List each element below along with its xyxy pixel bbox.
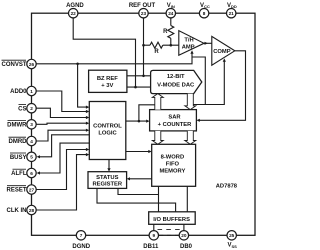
wire T/H bottom tee to DAC output line [192, 57, 205, 105]
wire BZ REF out1 to DAC [127, 75, 151, 77]
chip boundary border [32, 13, 256, 235]
dashed line DB11 to DB0 [159, 234, 179, 236]
wire CLK IN [37, 155, 87, 210]
pin 20 DB0 [179, 231, 188, 240]
svg-text:R: R [154, 49, 159, 55]
block STATUS REGISTER [88, 172, 127, 189]
svg-text:27: 27 [29, 187, 35, 192]
svg-text:24: 24 [168, 11, 174, 16]
wire REF OUT pin23 vertical [143, 18, 145, 76]
wire CS [37, 108, 87, 117]
svg-text:1: 1 [30, 89, 33, 94]
svg-text:R: R [163, 29, 168, 35]
block BZ REF +3V [89, 70, 127, 92]
arrowhead CLK IN into CL [86, 153, 89, 156]
svg-text:12-BIT: 12-BIT [167, 74, 185, 80]
arrowhead BUSY into pin 5 [37, 155, 40, 158]
svg-text:+ COUNTER: + COUNTER [158, 122, 192, 128]
DAC block 12-BIT V-MODE DAC [151, 70, 202, 93]
pin 26 CONVST [27, 59, 36, 68]
svg-text:CLK IN: CLK IN [7, 208, 27, 214]
arrowhead DMWR into CL [86, 122, 89, 125]
svg-text:20: 20 [181, 233, 187, 238]
svg-text:23: 23 [141, 11, 147, 16]
node dot CL/SAR branch [138, 120, 141, 123]
svg-text:DMWR: DMWR [7, 123, 27, 129]
svg-text:SAR: SAR [168, 115, 181, 121]
svg-text:28: 28 [29, 208, 35, 213]
svg-text:LOGIC: LOGIC [98, 130, 117, 136]
bus arrow SAR to FIFO left (down) [152, 131, 163, 144]
wire FIFO to I/O BUFFERS right [186, 186, 188, 212]
svg-text:4: 4 [30, 139, 33, 144]
svg-text:REGISTER: REGISTER [92, 182, 122, 188]
svg-text:STATUS: STATUS [96, 175, 118, 181]
pin 22 AGND [69, 9, 78, 18]
arrowhead into SAR right edge [196, 119, 199, 122]
svg-text:8-WORD: 8-WORD [161, 155, 185, 161]
bus arrow DAC to SAR (down) [185, 94, 196, 110]
arrowhead CONVST into CL [86, 106, 89, 109]
wire VIN pin24 down to resistor [170, 18, 172, 26]
pin 8 VCC [199, 9, 208, 18]
pin 3 DMWR [27, 120, 36, 129]
arrowhead ALFL into pin 6 [37, 171, 40, 174]
svg-text:8: 8 [203, 11, 206, 16]
pin 9 DB11 [149, 231, 158, 240]
node dot AGND joins out2 [134, 86, 137, 89]
pin 2 CS [27, 104, 36, 113]
svg-text:DB11: DB11 [143, 244, 159, 250]
bus arrow SAR to DAC (up) [152, 94, 163, 110]
arrowhead into STATUS REGISTER right [127, 177, 130, 180]
wire ALFL output from CL [39, 143, 89, 173]
svg-text:I/O BUFFERS: I/O BUFFERS [153, 217, 190, 223]
wire REF OUT to horizontal resistor [144, 44, 151, 46]
block I/O BUFFERS [149, 212, 196, 225]
svg-text:9: 9 [152, 233, 155, 238]
arrowhead up into T/H bottom [190, 50, 193, 53]
resistor R horizontal [150, 42, 163, 48]
svg-text:DB0: DB0 [180, 244, 193, 250]
node junction dot R network on REF OUT line [142, 44, 145, 47]
wire I/O BUFFERS to DB11 pin [153, 224, 155, 230]
svg-text:FIFO: FIFO [166, 161, 180, 167]
bus arrow SAR to FIFO right (down) [185, 131, 196, 144]
pin 25 VSS [227, 231, 236, 240]
wire DMRD [37, 130, 87, 141]
pin 27 RESET [27, 185, 36, 194]
svg-text:CONTROL: CONTROL [93, 123, 122, 129]
svg-text:CS: CS [18, 106, 26, 112]
pin 5 BUSY [27, 152, 36, 161]
svg-text:+ 3V: + 3V [101, 83, 113, 89]
wire branch up to DAC bus [139, 105, 155, 121]
pin 24 VIN [166, 9, 175, 18]
wire CONVST branch to control logic [78, 64, 87, 107]
wire ADD0 [37, 91, 87, 112]
svg-text:VSS: VSS [228, 243, 238, 249]
svg-text:VDD: VDD [227, 3, 237, 9]
resistor R vertical [168, 26, 174, 46]
wire BUSY output from CL [39, 135, 89, 157]
svg-text:21: 21 [229, 11, 235, 16]
arrowhead into SAR left [146, 120, 149, 123]
svg-text:AD7878: AD7878 [216, 183, 238, 189]
wire CONVST horizontal to T/H hold control [37, 53, 193, 64]
comparator COMP triangle [212, 36, 235, 65]
wire STATUS REGISTER out A [118, 188, 159, 194]
pin 28 CLK IN [27, 205, 36, 214]
wire FIFO to I/O BUFFERS left [158, 186, 160, 212]
svg-text:RESET: RESET [6, 188, 26, 194]
node dot REF OUT joins out1 [142, 75, 145, 78]
node junction dot CONVST branch [76, 63, 79, 66]
wire STATUS REGISTER out B [97, 188, 176, 211]
node junction dot VIN/R [170, 44, 173, 47]
wire AGND pin22 down-right-down to node [73, 18, 135, 87]
svg-text:26: 26 [29, 62, 35, 67]
svg-text:T/H: T/H [184, 37, 193, 43]
arrowhead into FIFO left [148, 150, 151, 153]
svg-text:VIN: VIN [167, 3, 175, 9]
pin 1 ADD0 [27, 86, 36, 95]
svg-text:MEMORY: MEMORY [159, 168, 185, 174]
block SAR + COUNTER [150, 110, 197, 131]
arrowhead CS into CL [86, 116, 89, 119]
wire T/H output to COMP [204, 42, 212, 44]
arrowhead on T/H output [205, 42, 208, 45]
wire resistor to T/H amp input [163, 44, 179, 46]
svg-text:REF OUT: REF OUT [129, 3, 156, 9]
wire I/O BUFFERS to DB0 pin [183, 224, 185, 230]
arrowhead up into COMP bottom [223, 58, 226, 61]
wire CL down to STATUS REGISTER [108, 160, 110, 170]
wire BZ REF out2 to DAC [127, 86, 151, 88]
pin 21 VDD [227, 9, 236, 18]
pin 4 DMRD [27, 136, 36, 145]
wire FIFO to STATUS REGISTER [129, 178, 151, 180]
pin 23 REF OUT [139, 9, 148, 18]
arrowhead RESET into CL [86, 148, 89, 151]
arrowhead into STATUS REGISTER top [107, 168, 110, 171]
svg-text:ALFL: ALFL [11, 171, 27, 177]
svg-text:2: 2 [30, 106, 33, 111]
wire COMP output to SAR feedback [199, 51, 245, 121]
svg-text:6: 6 [30, 171, 33, 176]
wire CL to SAR [126, 120, 147, 122]
svg-text:22: 22 [71, 11, 77, 16]
block CONTROL LOGIC [89, 102, 126, 160]
arrowhead DMRD into CL [86, 129, 89, 132]
arrowhead ADD0 into CL [86, 110, 89, 113]
svg-text:AMP: AMP [182, 45, 195, 51]
svg-text:5: 5 [30, 155, 33, 160]
svg-text:AGND: AGND [66, 3, 84, 9]
op-amp T/H AMP triangle [179, 31, 204, 56]
svg-text:V-MODE DAC: V-MODE DAC [157, 83, 195, 89]
svg-text:BUSY: BUSY [10, 155, 27, 161]
wire DAC bus to COMP bottom input [193, 61, 224, 105]
pin 7 DGND [76, 231, 85, 240]
svg-text:COMP: COMP [213, 49, 231, 55]
wire RESET [37, 150, 87, 190]
svg-text:DGND: DGND [72, 244, 90, 250]
svg-text:3: 3 [30, 122, 33, 127]
svg-text:DMRD: DMRD [9, 139, 28, 145]
svg-text:25: 25 [229, 233, 235, 238]
pin 6 ALFL [27, 168, 36, 177]
svg-text:7: 7 [80, 233, 83, 238]
dashed bus continuation below I/O BUFFERS [158, 228, 181, 230]
svg-text:CONVST: CONVST [1, 62, 26, 68]
svg-text:ADD0: ADD0 [10, 89, 27, 95]
svg-text:VCC: VCC [200, 3, 210, 9]
wire CL to FIFO [126, 151, 149, 153]
wire DMWR [37, 123, 87, 124]
svg-text:BZ REF: BZ REF [97, 76, 118, 82]
block 8-WORD FIFO MEMORY [152, 144, 196, 186]
